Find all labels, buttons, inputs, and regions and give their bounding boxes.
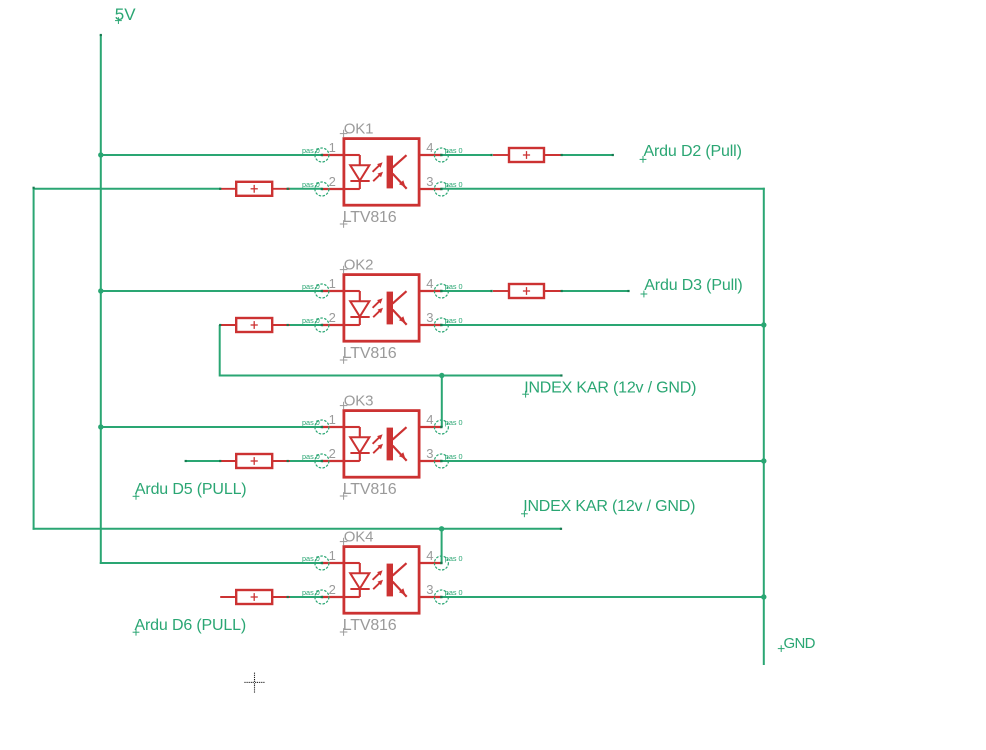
svg-text:Ardu D5 (PULL): Ardu D5 (PULL) (135, 481, 247, 498)
junction 5V / OK1 pin1 (98, 152, 103, 157)
net label Ardu D2 (Pull) (640, 143, 742, 163)
svg-text:4: 4 (426, 276, 433, 291)
svg-text:pas 0: pas 0 (302, 454, 320, 461)
ground label GND (778, 635, 816, 652)
resistor (OK2 output pull) (493, 284, 562, 298)
net label INDEX KAR (12v / GND) lower (521, 498, 695, 517)
svg-text:2: 2 (329, 310, 336, 325)
optocoupler OK2 body (LED + phototransistor) (344, 275, 419, 342)
optocoupler OK4 body (LED + phototransistor) (344, 547, 419, 614)
svg-text:3: 3 (426, 446, 433, 461)
svg-text:LTV816: LTV816 (343, 345, 397, 362)
svg-text:LTV816: LTV816 (343, 481, 397, 498)
svg-text:Ardu D2 (Pull): Ardu D2 (Pull) (644, 143, 742, 160)
svg-text:GND: GND (784, 635, 816, 652)
svg-text:INDEX KAR (12v / GND): INDEX KAR (12v / GND) (523, 498, 695, 515)
svg-text:3: 3 (426, 174, 433, 189)
wire OK3 resistor to pin2 (288, 460, 322, 462)
OK2 pin 2 (302, 310, 345, 332)
svg-text:LTV816: LTV816 (343, 209, 397, 226)
net label Ardu D5 (PULL) (133, 481, 247, 500)
svg-text:pas 0: pas 0 (445, 148, 463, 155)
junction 5V / OK3 pin1 (98, 424, 103, 429)
wire OK2 pin3 to GND bus (441, 324, 763, 326)
svg-text:Ardu D3 (Pull): Ardu D3 (Pull) (644, 277, 742, 294)
wire 5V to OK3 pin1 (101, 426, 322, 428)
svg-text:1: 1 (329, 548, 336, 563)
svg-text:INDEX KAR (12v / GND): INDEX KAR (12v / GND) (524, 380, 696, 397)
wire OK3 pin2 left segment (186, 460, 221, 462)
wire OK1 pin4 to resistor (441, 154, 491, 156)
OK1 pin 3 (418, 174, 463, 196)
resistor (OK2 LED series) (220, 318, 290, 332)
wire OK2 pin4 to resistor (441, 290, 491, 292)
svg-text:1: 1 (329, 140, 336, 155)
svg-text:2: 2 (329, 174, 336, 189)
svg-text:pas 0: pas 0 (445, 420, 463, 427)
OK3 pin 4 (418, 412, 463, 434)
wire OK1 resistor to pin2 (288, 188, 322, 190)
svg-text:2: 2 (329, 446, 336, 461)
net label INDEX KAR (12v / GND) upper (522, 380, 696, 398)
part value label LTV816 (OK4) (340, 617, 397, 636)
net label Ardu D6 (PULL) (133, 617, 246, 636)
OK3 pin 2 (302, 446, 345, 468)
svg-text:pas 0: pas 0 (302, 182, 320, 189)
svg-text:pas 0: pas 0 (302, 284, 320, 291)
wire OK2 resistor to label stub (562, 290, 629, 292)
svg-text:2: 2 (329, 582, 336, 597)
OK3 pin 3 (418, 446, 463, 468)
svg-text:4: 4 (426, 140, 433, 155)
power label 5V (115, 5, 136, 24)
net label Ardu D3 (Pull) (641, 277, 743, 297)
svg-text:pas 0: pas 0 (302, 148, 320, 155)
wire INDEX KAR net horizontal (upper) (220, 375, 562, 377)
OK2 pin 3 (418, 310, 463, 332)
junction GND bus / OK4 pin3 (761, 594, 766, 599)
svg-text:4: 4 (426, 412, 433, 427)
OK1 pin 1 (302, 140, 345, 162)
svg-text:3: 3 (426, 310, 433, 325)
svg-text:pas 0: pas 0 (302, 420, 320, 427)
svg-text:1: 1 (329, 412, 336, 427)
wire GND vertical bus right (763, 188, 765, 665)
junction GND bus / OK2 pin3 (761, 322, 766, 327)
junction GND bus / OK3 pin3 (761, 458, 766, 463)
junction 5V / OK2 pin1 (98, 288, 103, 293)
svg-text:LTV816: LTV816 (343, 617, 397, 634)
resistor (OK3 LED series) (220, 454, 290, 468)
svg-text:OK3: OK3 (344, 393, 373, 410)
svg-text:pas 0: pas 0 (302, 318, 320, 325)
svg-text:pas 0: pas 0 (445, 182, 463, 189)
junction INDEX KAR / OK3 pin4 stub (439, 373, 444, 378)
svg-text:pas 0: pas 0 (445, 318, 463, 325)
OK4 pin 3 (418, 582, 463, 604)
wire OK3 pin3 to GND bus (441, 460, 763, 462)
wire left return vertical (33, 188, 35, 530)
svg-text:OK4: OK4 (344, 529, 373, 546)
svg-text:pas 0: pas 0 (445, 556, 463, 563)
wire OK1 resistor to label stub (562, 154, 613, 156)
OK4 pin 2 (302, 582, 345, 604)
OK4 pin 1 (302, 548, 345, 570)
part value label LTV816 (OK3) (340, 481, 397, 500)
part value label LTV816 (OK2) (340, 345, 397, 364)
svg-text:OK1: OK1 (344, 121, 373, 138)
svg-text:OK2: OK2 (344, 257, 373, 274)
OK1 pin 4 (418, 140, 463, 162)
OK2 pin 4 (418, 276, 463, 298)
OK1 pin 2 (302, 174, 345, 196)
optocoupler OK3 body (LED + phototransistor) (344, 411, 419, 478)
svg-text:3: 3 (426, 582, 433, 597)
wire OK1 pin2 row horizontal (33, 188, 221, 190)
OK4 pin 4 (418, 548, 463, 570)
part name label OK4 (340, 529, 373, 546)
wire stub to OK4 pin4 (441, 529, 443, 563)
svg-text:pas 0: pas 0 (445, 284, 463, 291)
wire stub to OK3 pin4 (441, 376, 443, 428)
resistor (OK4 LED series) (220, 590, 290, 604)
wire OK2 pin2 vertical drop (219, 325, 221, 377)
svg-text:Ardu D6 (PULL): Ardu D6 (PULL) (135, 617, 247, 634)
wire 5V vertical bus (100, 35, 102, 564)
part name label OK3 (340, 393, 373, 410)
svg-text:1: 1 (329, 276, 336, 291)
svg-text:pas 0: pas 0 (445, 454, 463, 461)
cursor crosshair (244, 673, 264, 693)
svg-text:pas 0: pas 0 (445, 590, 463, 597)
wire OK1 pin3 to GND bus (441, 188, 764, 190)
svg-text:pas 0: pas 0 (302, 590, 320, 597)
resistor (OK1 LED series) (220, 182, 290, 196)
wire 5V corner to OK4 pin1 (100, 562, 322, 564)
part value label LTV816 (OK1) (340, 209, 397, 228)
OK2 pin 1 (302, 276, 345, 298)
svg-text:pas 0: pas 0 (302, 556, 320, 563)
wire OK4 resistor to pin2 (288, 596, 322, 598)
wire OK4 pin3 to GND bus (441, 596, 763, 598)
wire endpoint ticks (33, 34, 630, 598)
junction at bottom return / OK4 pin4 stub (439, 526, 444, 531)
wire 5V to OK2 pin1 (101, 290, 322, 292)
part name label OK1 (340, 121, 373, 138)
wire 5V to OK1 pin1 (101, 154, 322, 156)
OK3 pin 1 (302, 412, 345, 434)
part name label OK2 (340, 257, 373, 274)
wire bottom return horizontal (33, 528, 561, 530)
resistor (OK1 output pull) (493, 148, 562, 162)
svg-text:4: 4 (426, 548, 433, 563)
optocoupler OK1 body (LED + phototransistor) (344, 139, 419, 206)
wire OK2 resistor to pin2 (288, 324, 322, 326)
